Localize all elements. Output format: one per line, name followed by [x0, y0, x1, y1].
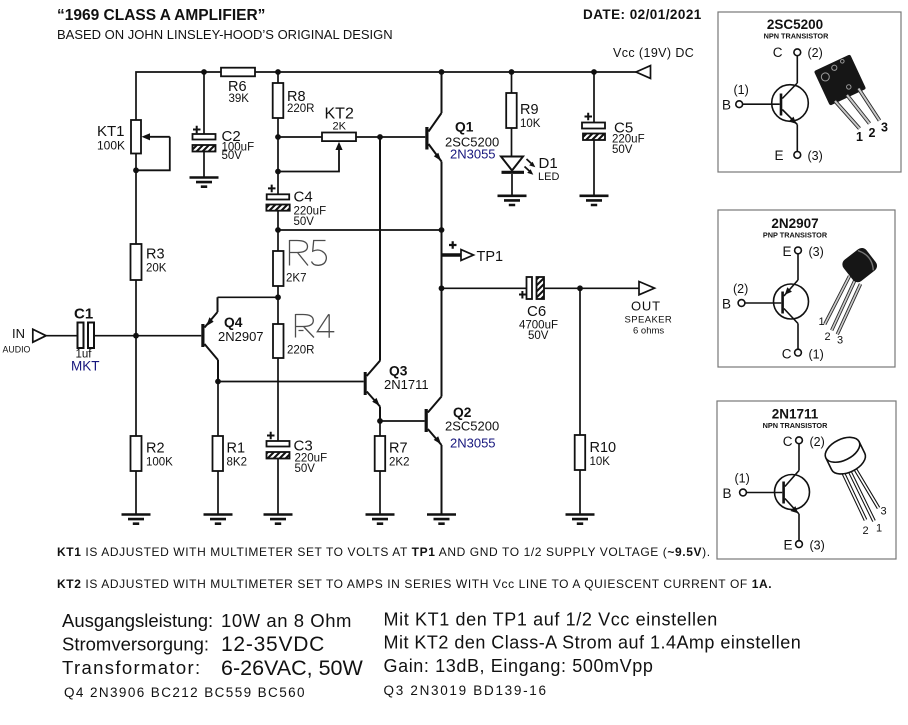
svg-text:2N3055: 2N3055: [450, 436, 496, 451]
svg-text:2N1711: 2N1711: [384, 377, 429, 392]
info box 2SC5200: [718, 12, 901, 172]
svg-text:SPEAKER: SPEAKER: [625, 315, 673, 326]
terminal IN arrow: [3, 326, 47, 355]
svg-text:2: 2: [869, 126, 876, 140]
svg-text:LED: LED: [538, 171, 559, 183]
svg-text:3: 3: [881, 506, 887, 518]
svg-text:(1): (1): [809, 348, 824, 362]
svg-text:2N2907: 2N2907: [771, 216, 818, 231]
svg-text:220R: 220R: [287, 103, 315, 115]
svg-text:C1: C1: [74, 306, 93, 323]
wire R4 to C3: [277, 358, 279, 441]
svg-text:BASED ON JOHN LINSLEY-HOOD’S O: BASED ON JOHN LINSLEY-HOOD’S ORIGINAL DE…: [57, 27, 393, 42]
svg-text:2SC5200: 2SC5200: [767, 17, 823, 32]
svg-text:Mit KT1 den TP1 auf 1/2 Vcc ei: Mit KT1 den TP1 auf 1/2 Vcc einstellen: [384, 610, 718, 630]
svg-text:C: C: [782, 347, 792, 362]
svg-text:2N2907: 2N2907: [218, 329, 264, 344]
package TO-18 drawing: [819, 246, 880, 347]
test point TP1: [442, 241, 504, 265]
resistor R1: [213, 382, 247, 515]
svg-text:2K2: 2K2: [389, 457, 409, 469]
svg-text:50V: 50V: [612, 144, 633, 156]
resistor R5: [273, 251, 306, 286]
capacitor C2: [193, 72, 255, 177]
junction dot output node: [439, 285, 445, 291]
svg-text:KT1: KT1: [97, 123, 125, 140]
svg-text:Vcc (19V) DC: Vcc (19V) DC: [613, 46, 694, 60]
svg-text:2N1711: 2N1711: [772, 407, 819, 422]
svg-text:E: E: [783, 538, 792, 553]
svg-text:(1): (1): [734, 83, 749, 97]
wire C1 to Q4 base: [94, 335, 201, 337]
svg-text:IN: IN: [12, 326, 25, 341]
svg-text:2: 2: [863, 525, 869, 537]
resistor R10: [575, 288, 616, 514]
junction dot top rail at C5: [591, 69, 597, 75]
wire Q3 emitter node to Q2 base: [380, 420, 425, 422]
svg-text:20K: 20K: [146, 263, 167, 275]
wire R5 to R4: [277, 286, 279, 324]
ground for Q2: [427, 515, 456, 524]
potentiometer KT1: [97, 120, 170, 170]
svg-text:50V: 50V: [294, 216, 315, 228]
svg-text:R2: R2: [146, 441, 165, 457]
svg-text:39K: 39K: [229, 93, 250, 105]
ground for R1: [204, 515, 233, 524]
info box 2N1711: [717, 401, 896, 559]
wire R8 top rail drop: [277, 72, 279, 83]
svg-text:E: E: [782, 244, 791, 259]
svg-text:R3: R3: [146, 247, 165, 263]
capacitor C6: [519, 277, 558, 342]
junction dot R5 top node: [275, 227, 281, 233]
svg-text:C6: C6: [527, 303, 546, 320]
svg-text:2SC5200: 2SC5200: [445, 419, 499, 434]
svg-text:10W an 8 Ohm: 10W an 8 Ohm: [221, 610, 352, 631]
svg-text:“1969 CLASS A AMPLIFIER”: “1969 CLASS A AMPLIFIER”: [57, 7, 265, 24]
svg-text:C: C: [783, 434, 793, 449]
junction dot Q3 emitter node: [377, 418, 383, 424]
wire R8 bottom down to C4: [277, 118, 279, 194]
svg-text:B: B: [722, 98, 731, 113]
svg-text:TP1: TP1: [477, 249, 504, 265]
svg-text:6-26VAC, 50W: 6-26VAC, 50W: [221, 656, 364, 680]
svg-text:Q4: Q4: [224, 315, 243, 330]
svg-text:(2): (2): [733, 282, 748, 296]
svg-text:Q1: Q1: [455, 120, 474, 135]
transistor Q2: [425, 397, 500, 515]
resistor R4: [273, 324, 315, 358]
svg-text:D1: D1: [539, 155, 558, 172]
junction dot top rail at Q1 collector: [439, 69, 445, 75]
svg-text:220R: 220R: [287, 345, 315, 357]
terminal OUT arrow: [625, 282, 673, 337]
svg-text:100K: 100K: [146, 457, 173, 469]
junction dot top rail at R9: [509, 69, 515, 75]
svg-text:100K: 100K: [97, 139, 125, 153]
svg-text:10K: 10K: [520, 118, 541, 130]
svg-text:(2): (2): [808, 46, 823, 60]
wire R2 to ground: [135, 471, 137, 514]
svg-text:50V: 50V: [528, 330, 549, 342]
svg-text:PNP TRANSISTOR: PNP TRANSISTOR: [763, 231, 828, 240]
svg-text:Ausgangsleistung:: Ausgangsleistung:: [62, 610, 213, 631]
package TO-39 drawing: [821, 432, 886, 537]
svg-text:1: 1: [876, 523, 882, 535]
wire KT1 bottom to R3: [135, 154, 137, 245]
svg-text:R7: R7: [389, 441, 408, 457]
junction dot R10 node: [577, 285, 583, 291]
wire top rail left segment: [136, 72, 221, 120]
terminal Vcc arrow: [636, 66, 651, 79]
svg-text:10K: 10K: [590, 456, 611, 468]
resistor R3: [131, 244, 167, 280]
ground for C5: [580, 196, 609, 205]
symbol U1 npn 2SC5200: [722, 45, 823, 163]
ground for C3: [264, 515, 293, 524]
wire top rail right segment: [255, 71, 636, 73]
junction dot Q3 collector branch: [377, 134, 383, 140]
svg-text:C: C: [773, 45, 783, 60]
svg-text:3: 3: [881, 121, 888, 135]
svg-text:8K2: 8K2: [227, 457, 247, 469]
svg-text:1: 1: [856, 130, 863, 144]
svg-text:Q3 2N3019 BD139-16: Q3 2N3019 BD139-16: [384, 683, 548, 698]
info box 2N2907: [718, 210, 895, 367]
transistor Q3: [364, 137, 429, 421]
symbol U2 pnp 2N2907: [722, 244, 824, 362]
wire C6 to OUT: [544, 287, 639, 289]
svg-text:2K7: 2K7: [286, 273, 306, 285]
ground for R7: [366, 515, 395, 524]
junction dot TP1 node top: [439, 227, 445, 233]
svg-text:(1): (1): [735, 472, 750, 486]
junction dot Q4 collector node: [215, 379, 221, 385]
svg-text:50V: 50V: [222, 150, 243, 162]
svg-text:(3): (3): [809, 245, 824, 259]
svg-text:(3): (3): [810, 539, 825, 553]
junction dot Q4 emitter node: [275, 294, 281, 300]
svg-text:2: 2: [825, 331, 831, 343]
resistor R7: [375, 421, 410, 514]
svg-text:E: E: [774, 148, 783, 163]
svg-text:50V: 50V: [295, 463, 316, 475]
junction dot KT1 wiper: [133, 167, 139, 173]
svg-text:(3): (3): [808, 149, 823, 163]
capacitor C3: [267, 432, 328, 514]
svg-text:MKT: MKT: [71, 359, 100, 374]
ground for C2: [190, 178, 219, 187]
resistor R9: [506, 72, 541, 156]
svg-text:NPN TRANSISTOR: NPN TRANSISTOR: [763, 421, 828, 430]
transistor Q1: [425, 72, 499, 397]
ground for R10: [566, 515, 595, 524]
svg-text:AUDIO: AUDIO: [3, 345, 31, 355]
wire output node to C6: [442, 287, 527, 289]
package TO-264 drawing: [814, 54, 888, 144]
capacitor C1: [71, 306, 100, 374]
junction dot base wire node: [275, 134, 281, 140]
resistor R2: [131, 436, 174, 471]
capacitor C4: [266, 185, 326, 251]
svg-text:2N3055: 2N3055: [450, 147, 496, 162]
svg-text:C4: C4: [294, 189, 313, 206]
ground for D1: [498, 196, 527, 205]
svg-text:3: 3: [837, 335, 843, 347]
ghost label R5: [290, 240, 327, 266]
svg-text:6 ohms: 6 ohms: [633, 326, 664, 337]
svg-text:12-35VDC: 12-35VDC: [221, 633, 325, 656]
svg-text:R9: R9: [520, 102, 539, 118]
svg-text:R10: R10: [590, 440, 617, 456]
wire IN to C1: [46, 335, 78, 337]
svg-text:NPN TRANSISTOR: NPN TRANSISTOR: [764, 32, 829, 41]
LED D1: [501, 155, 559, 195]
wire R3 to R2: [135, 280, 137, 436]
junction dot KT2 wiper return: [275, 169, 281, 175]
svg-text:KT1 IS ADJUSTED WITH MULTIMETE: KT1 IS ADJUSTED WITH MULTIMETER SET TO V…: [57, 545, 711, 559]
svg-text:Mit KT2 den Class-A Strom auf: Mit KT2 den Class-A Strom auf 1.4Amp ein…: [384, 633, 802, 653]
svg-text:1: 1: [819, 316, 825, 328]
svg-text:B: B: [723, 486, 732, 501]
svg-text:Stromversorgung:: Stromversorgung:: [62, 634, 209, 655]
junction dot top rail at R8: [275, 69, 281, 75]
potentiometer KT2: [278, 106, 356, 172]
svg-text:OUT: OUT: [631, 299, 661, 314]
svg-text:Gain: 13dB, Eingang: 500mVpp: Gain: 13dB, Eingang: 500mVpp: [384, 656, 654, 676]
svg-text:Transformator:: Transformator:: [62, 657, 202, 678]
svg-text:KT2 IS ADJUSTED WITH MULTIMETE: KT2 IS ADJUSTED WITH MULTIMETER SET TO A…: [57, 577, 772, 591]
resistor R6: [221, 68, 255, 105]
ground for R2: [122, 515, 151, 524]
svg-text:2K: 2K: [333, 121, 347, 133]
junction dot top rail at C2: [201, 69, 207, 75]
junction dot input node: [133, 333, 139, 339]
capacitor C5: [582, 72, 645, 195]
resistor R8: [273, 83, 315, 118]
wire KT2 right to Q1 base: [356, 136, 425, 138]
symbol U3 npn 2N1711: [723, 434, 825, 553]
svg-text:DATE: 02/01/2021: DATE: 02/01/2021: [583, 7, 702, 22]
svg-text:R1: R1: [227, 441, 246, 457]
wire Q4 collector node to Q3 base: [218, 381, 364, 383]
wire R5 node to Q1 emitter line: [278, 229, 442, 231]
wire node to KT2 left: [278, 136, 322, 138]
transistor Q4: [201, 297, 263, 381]
svg-text:B: B: [722, 297, 731, 312]
svg-text:Q4 2N3906 BC212 BC559 BC560: Q4 2N3906 BC212 BC559 BC560: [64, 685, 306, 700]
wire Q4 emitter to node: [218, 296, 279, 298]
ghost label R4: [296, 314, 335, 338]
svg-text:(2): (2): [810, 435, 825, 449]
